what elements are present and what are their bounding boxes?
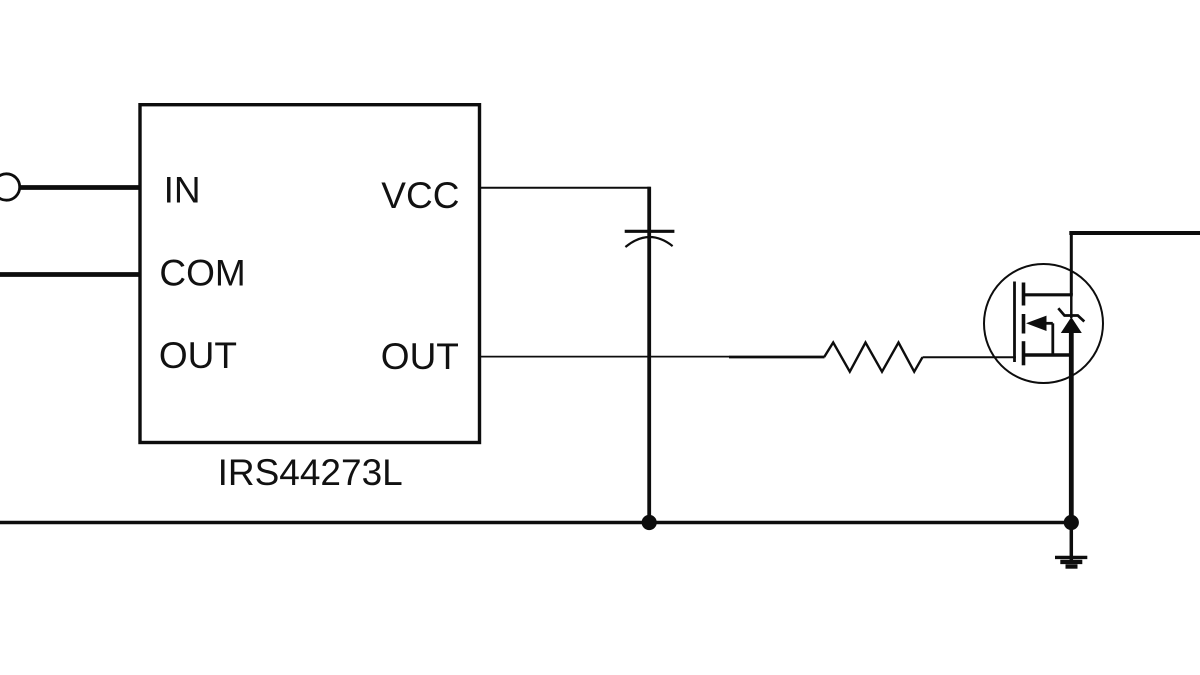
- Q1 source horizontal lead: [1024, 353, 1073, 356]
- resistor R1 (gate resistor zigzag): [824, 343, 922, 372]
- body diode D1 zener cathode bar: [1058, 308, 1084, 321]
- junction dot (capacitor to ground rail): [642, 515, 657, 530]
- Q1 drain horizontal lead: [1024, 293, 1073, 296]
- body diode D1 cathode lead: [1070, 295, 1073, 318]
- Q1 body lead vertical down to source: [1051, 323, 1054, 355]
- input terminal (open circle): [0, 174, 20, 200]
- body diode D1 triangle (anode, pointing up): [1061, 317, 1082, 333]
- wire VCC horizontal (U1 VCC to capacitor top): [480, 187, 651, 189]
- ground symbol bar 1: [1055, 556, 1087, 559]
- wire COM (left edge to U1 COM pin): [0, 272, 141, 277]
- svg-text:OUT: OUT: [381, 336, 459, 377]
- Q1 body lead horizontal: [1044, 322, 1053, 325]
- wire IN (input to U1 IN pin): [20, 185, 141, 190]
- svg-text:COM: COM: [159, 253, 245, 294]
- Q1 gate bar: [1013, 282, 1016, 363]
- ground symbol bar 2: [1060, 560, 1082, 564]
- junction dot (source to ground rail): [1064, 515, 1079, 530]
- Q1 channel segment (source): [1022, 341, 1026, 365]
- ground symbol bar 3: [1066, 564, 1078, 568]
- capacitor C1 top plate: [625, 230, 675, 233]
- ground rail (bottom, left edge to MOSFET source): [0, 521, 1071, 525]
- wire OUT (thicker segment before resistor): [729, 356, 825, 359]
- wire capacitor vertical (VCC node down to ground rail): [647, 187, 651, 523]
- svg-text:IRS44273L: IRS44273L: [218, 452, 403, 493]
- capacitor C1 bottom curved plate: [625, 237, 672, 247]
- Q1 channel segment (drain): [1022, 283, 1026, 306]
- ground stem: [1070, 523, 1074, 565]
- Q1 body arrow (points left into channel): [1026, 316, 1047, 331]
- Q1 channel segment (body): [1022, 314, 1026, 334]
- svg-text:VCC: VCC: [381, 175, 459, 216]
- transistor Q1 body circle: [984, 264, 1103, 383]
- wire source vertical down to ground rail: [1069, 333, 1074, 523]
- wire drain top rail (to right edge): [1069, 231, 1200, 235]
- wire OUT (U1 OUT to resistor, thin segment): [480, 356, 729, 358]
- svg-text:OUT: OUT: [159, 335, 237, 376]
- IC U1 IRS44273L box: [140, 105, 480, 443]
- Q1 drain vertical wire up to top rail: [1070, 231, 1073, 295]
- wire resistor to gate: [923, 356, 1016, 358]
- svg-text:IN: IN: [164, 169, 201, 210]
